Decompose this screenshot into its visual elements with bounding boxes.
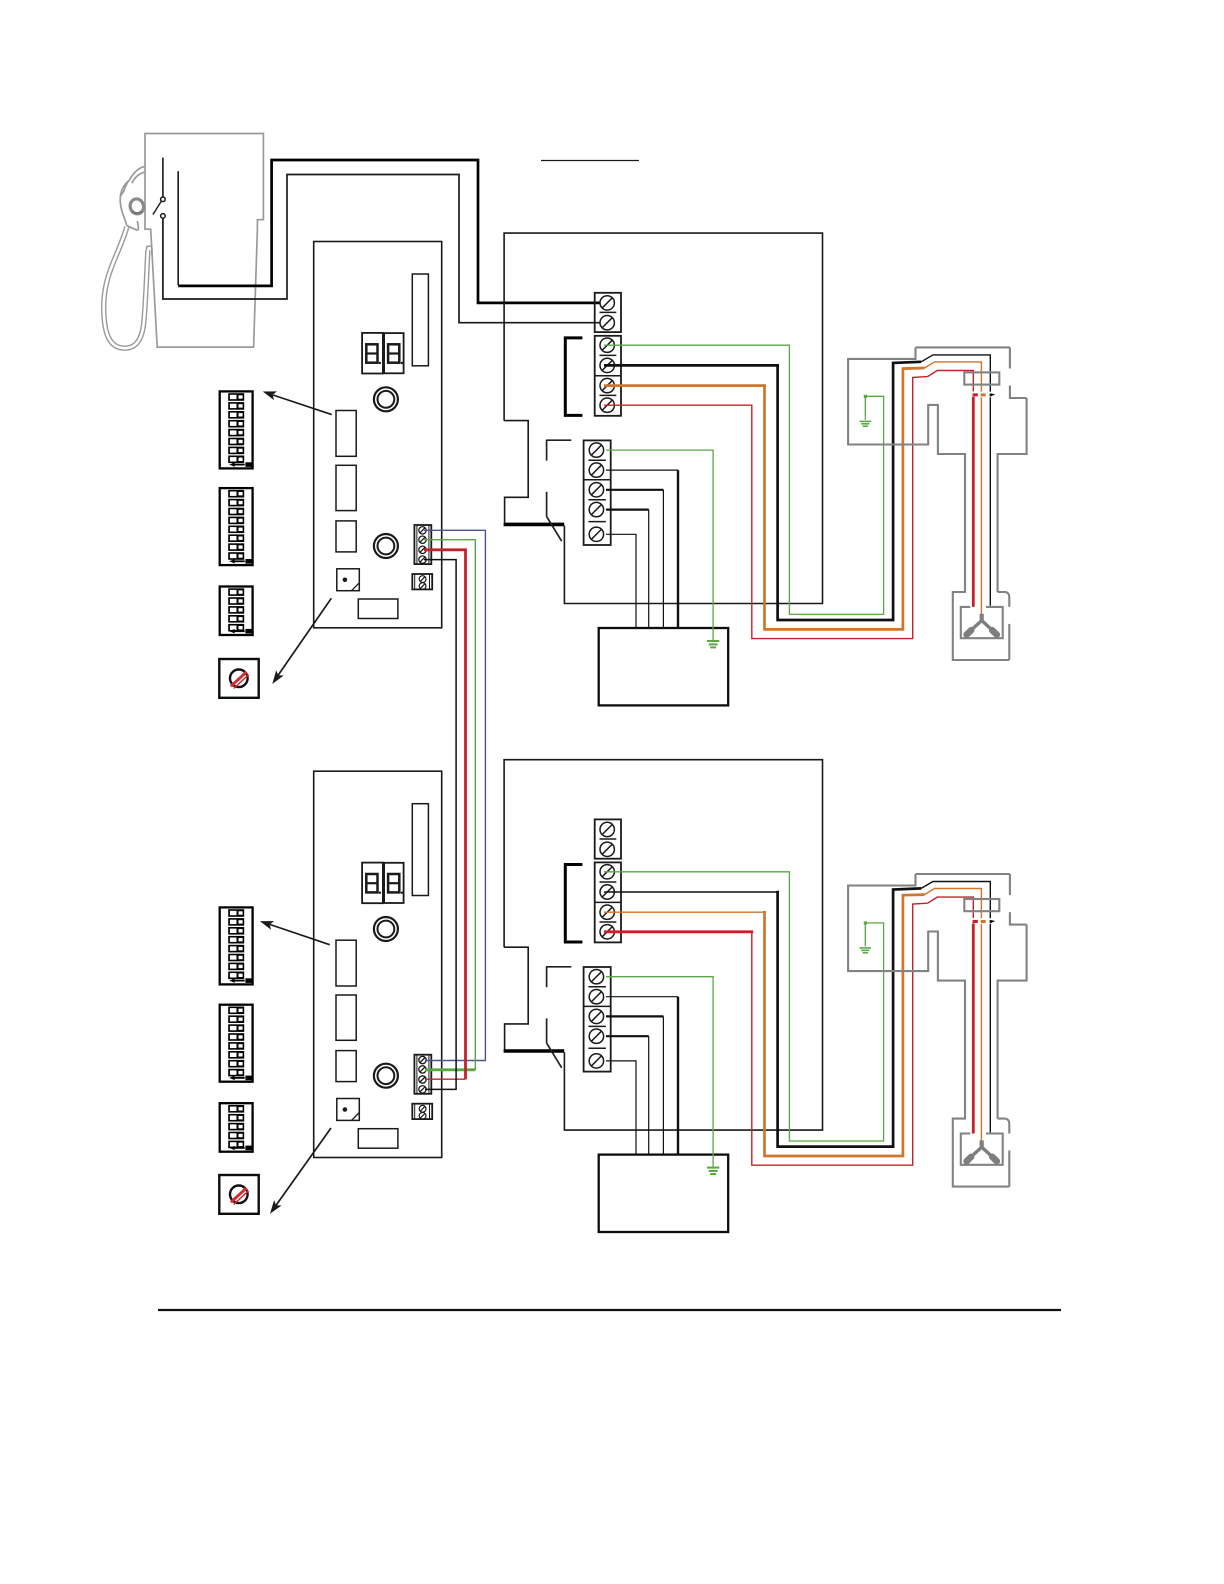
arrow: DIP banks callout 1 <box>263 391 332 414</box>
wire red TB2-4 feeder (lower) <box>604 930 753 933</box>
wire: switch to TB1-2 <box>163 175 600 323</box>
fuel dispenser outline (gray) <box>145 134 263 348</box>
interconnect wire green <box>424 540 475 1070</box>
arrow: rotary switch callout 2 <box>270 1128 331 1214</box>
nozzle holder hook <box>147 246 152 255</box>
DIP switch bank C2 <box>220 1103 253 1152</box>
arrow: DIP banks callout 2 <box>260 921 330 945</box>
hook switch contacts <box>161 197 166 202</box>
wire black TB2-2 feeder (upper) <box>604 364 779 367</box>
right-section assembly 2 <box>504 760 1027 1232</box>
interconnect wire red <box>424 550 466 1079</box>
DIP switch bank A1 <box>220 391 253 468</box>
switch top stub wire <box>162 158 164 197</box>
wire: conductor 2 to TB1-1 (thick) <box>178 160 600 303</box>
handset cord loop <box>104 227 148 348</box>
interconnect wire black <box>424 560 456 1090</box>
handset / nozzle body <box>129 167 145 181</box>
DIP switch bank C1 <box>220 587 253 636</box>
right-section assembly 1 <box>504 233 1027 705</box>
rotary switch 2 <box>219 1175 258 1214</box>
control board 1 <box>314 242 442 628</box>
DIP switch bank B2 <box>220 1005 253 1082</box>
reference underline (top center) <box>541 160 639 162</box>
control board 2 <box>314 771 442 1157</box>
wire orange TB2-3 feeder (lower) <box>604 911 766 913</box>
wire black TB2-2 feeder (lower) <box>604 891 779 893</box>
interconnect wire blue <box>424 530 485 1060</box>
DIP switch bank B1 <box>220 488 253 565</box>
stub wire (second conductor) <box>177 171 179 285</box>
wire orange TB2-3 feeder (upper) <box>604 384 766 387</box>
switch lever <box>153 201 161 214</box>
footer rule <box>158 1309 1061 1311</box>
arrow: rotary switch callout 1 <box>272 598 331 684</box>
rotary switch 1 <box>219 659 258 698</box>
wire red TB2-4 feeder (upper) <box>604 404 753 406</box>
DIP switch bank A2 <box>220 907 253 984</box>
